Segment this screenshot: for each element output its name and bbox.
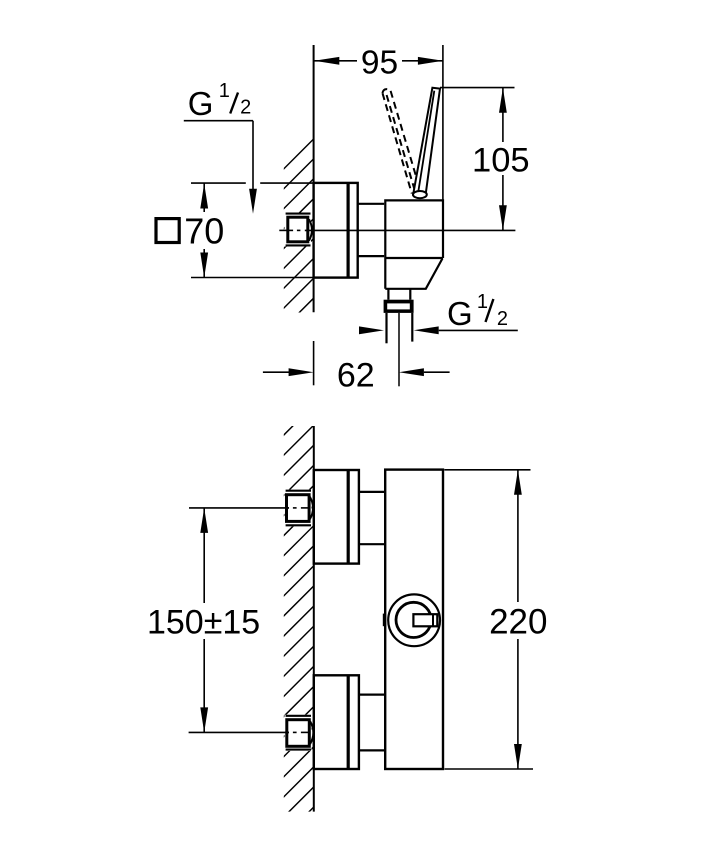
centre line of inlet (dash-dot) xyxy=(279,229,515,231)
connecting neck (top figure) xyxy=(358,203,385,205)
upper neck xyxy=(359,491,385,493)
extension line bottom of 70 dim xyxy=(191,277,314,279)
lower inlet union square xyxy=(285,715,314,751)
svg-text:2: 2 xyxy=(497,308,508,330)
svg-text:95: 95 xyxy=(361,45,398,82)
wall hatching (bottom figure) xyxy=(283,405,314,838)
svg-text:G: G xyxy=(447,295,473,332)
dimension 220 xyxy=(444,470,549,769)
shower hose connector circle xyxy=(383,594,440,646)
upper inlet union square xyxy=(285,490,314,527)
escutcheon (top figure, side view) xyxy=(314,183,358,278)
outlet collar rings xyxy=(384,300,414,313)
svg-text:62: 62 xyxy=(337,356,375,394)
label G 1/2 (outlet) xyxy=(359,291,518,334)
svg-text:1: 1 xyxy=(477,291,488,313)
dimension 105 xyxy=(440,88,532,231)
wall hatching (top figure) xyxy=(283,139,314,329)
dimension 62 xyxy=(263,341,450,394)
svg-text:220: 220 xyxy=(489,603,547,642)
lower neck xyxy=(359,693,385,695)
outlet pipe G1/2 xyxy=(385,313,387,343)
svg-text:105: 105 xyxy=(472,141,530,179)
svg-text:2: 2 xyxy=(240,97,251,119)
square symbol + 70 dimension text xyxy=(156,184,226,278)
mixer body (top figure) xyxy=(385,200,443,288)
outlet neck below body xyxy=(387,289,389,300)
wall face line (bottom figure) xyxy=(313,426,315,812)
outlet centre line / 62 extension xyxy=(398,313,400,386)
inlet union square (top figure) xyxy=(285,213,312,247)
svg-text:150±15: 150±15 xyxy=(147,603,260,641)
svg-text:1: 1 xyxy=(219,80,230,102)
lower escutcheon xyxy=(314,675,359,769)
dashed handle (alternate position) xyxy=(383,89,418,193)
lever handle (solid) xyxy=(413,88,440,199)
upper escutcheon xyxy=(314,470,359,564)
svg-text:G: G xyxy=(188,85,214,122)
dimension 150±15 xyxy=(145,508,289,733)
mixer body (bottom figure) xyxy=(385,470,443,769)
svg-text:70: 70 xyxy=(184,211,224,252)
wall face line (top figure) xyxy=(313,45,315,312)
label G 1/2 (inlet, top left) xyxy=(184,80,257,214)
escutcheon front plate line xyxy=(347,183,350,278)
inlet centre lines (dash-dot) xyxy=(285,508,310,733)
extension line top of 70 dim xyxy=(191,182,314,184)
dimension 95 xyxy=(314,44,443,200)
